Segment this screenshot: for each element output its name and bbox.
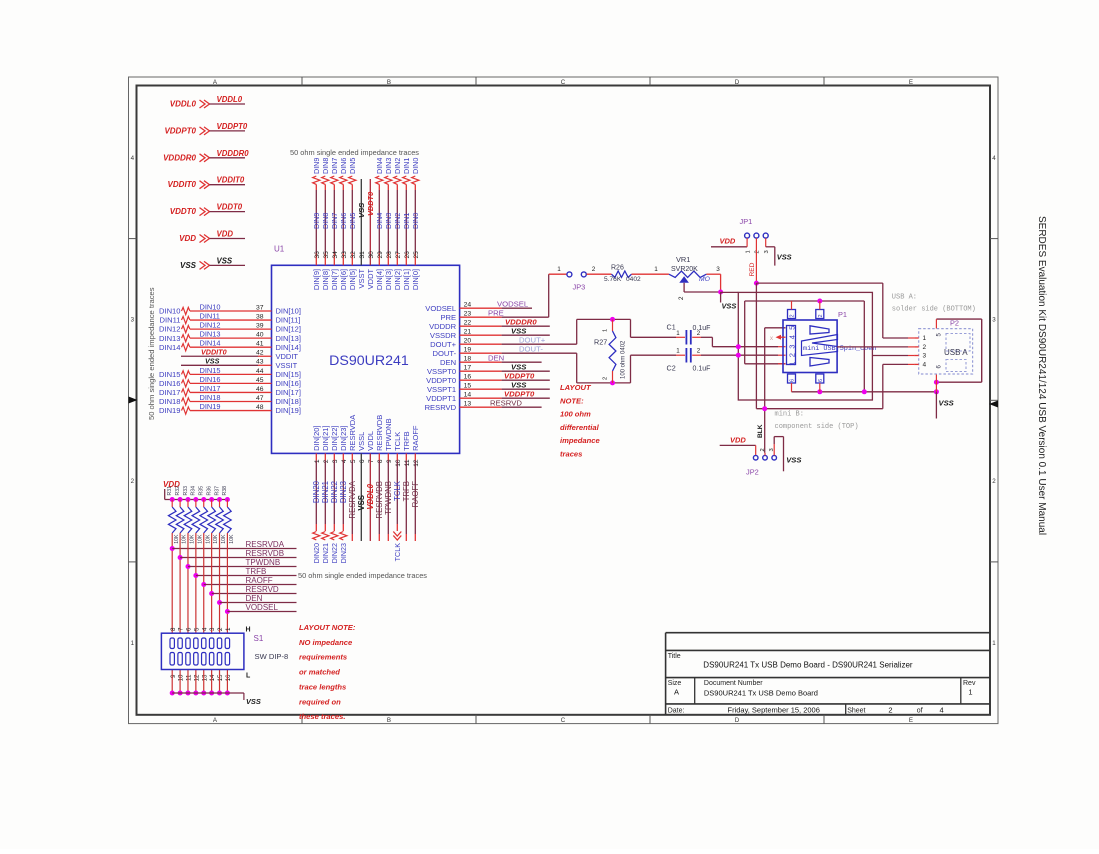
svg-text:RESRVD: RESRVD: [490, 398, 522, 407]
svg-text:VSS: VSS: [939, 399, 954, 408]
svg-text:JP1: JP1: [740, 217, 753, 226]
svg-text:DIN[7]: DIN[7]: [330, 269, 339, 290]
svg-text:0402: 0402: [626, 276, 641, 283]
svg-text:E: E: [909, 79, 913, 86]
svg-text:2: 2: [818, 314, 824, 317]
svg-text:7: 7: [178, 627, 185, 631]
svg-text:TCLK: TCLK: [393, 543, 402, 562]
svg-text:VSS: VSS: [357, 203, 366, 218]
svg-text:DIN[16]: DIN[16]: [276, 379, 301, 388]
svg-text:36: 36: [314, 251, 321, 259]
svg-text:2: 2: [755, 250, 761, 253]
svg-text:DIN2: DIN2: [393, 213, 402, 229]
svg-text:5: 5: [193, 627, 200, 631]
svg-text:28: 28: [386, 251, 393, 259]
svg-text:VDD: VDD: [730, 435, 746, 444]
svg-text:VSS: VSS: [217, 256, 233, 265]
svg-text:R33: R33: [183, 486, 189, 496]
svg-text:DS90UR241 Tx USB Demo Board: DS90UR241 Tx USB Demo Board: [704, 689, 818, 698]
svg-text:impedance: impedance: [560, 436, 600, 445]
svg-text:50 ohm single ended impedance: 50 ohm single ended impedance traces: [290, 148, 419, 157]
svg-text:30: 30: [368, 251, 375, 259]
svg-text:VDDL: VDDL: [366, 431, 375, 451]
svg-text:DOUT+: DOUT+: [519, 335, 546, 344]
svg-text:DIN[6]: DIN[6]: [339, 269, 348, 290]
svg-text:4: 4: [787, 335, 796, 339]
svg-text:SVR20K: SVR20K: [671, 266, 698, 273]
svg-text:VSSIT: VSSIT: [276, 361, 298, 370]
svg-text:TPWDNB: TPWDNB: [384, 481, 393, 515]
svg-text:DIN7: DIN7: [330, 213, 339, 229]
svg-text:DIN15: DIN15: [200, 366, 221, 375]
svg-text:10K: 10K: [182, 534, 188, 544]
svg-text:TRFB: TRFB: [246, 567, 267, 576]
svg-text:16: 16: [225, 674, 232, 681]
svg-text:VR1: VR1: [676, 255, 690, 264]
svg-text:VSSL: VSSL: [357, 432, 366, 451]
svg-text:VDDDR0: VDDDR0: [163, 153, 196, 162]
svg-text:10: 10: [395, 459, 402, 467]
svg-text:DOUT-: DOUT-: [519, 344, 543, 353]
svg-text:VSSPT1: VSSPT1: [427, 385, 456, 394]
svg-text:DIN20: DIN20: [312, 543, 321, 563]
svg-text:43: 43: [256, 359, 264, 366]
svg-text:4: 4: [341, 459, 348, 463]
svg-text:VSS: VSS: [722, 302, 737, 311]
svg-text:2: 2: [217, 627, 224, 631]
svg-text:3: 3: [209, 627, 216, 631]
svg-text:1: 1: [557, 266, 561, 273]
svg-text:VDDT0: VDDT0: [170, 207, 197, 216]
svg-text:DIN[21]: DIN[21]: [321, 425, 330, 450]
svg-text:4: 4: [940, 705, 944, 714]
svg-text:VDD: VDD: [179, 234, 196, 243]
svg-text:15: 15: [217, 674, 224, 681]
svg-text:12: 12: [193, 674, 200, 681]
svg-text:5.76K: 5.76K: [604, 276, 622, 283]
svg-text:VDDT0: VDDT0: [366, 191, 375, 216]
svg-text:9: 9: [386, 459, 393, 463]
svg-text:VSS: VSS: [357, 495, 366, 511]
svg-text:requirements: requirements: [299, 653, 347, 662]
svg-text:50 ohm single ended impedance: 50 ohm single ended impedance traces: [298, 571, 427, 580]
svg-text:3: 3: [787, 345, 796, 349]
svg-text:DIN9: DIN9: [312, 158, 321, 174]
svg-text:10K: 10K: [229, 534, 235, 544]
svg-text:C: C: [561, 717, 566, 724]
svg-text:DIN17: DIN17: [200, 384, 221, 393]
svg-text:DIN[20]: DIN[20]: [312, 425, 321, 450]
svg-text:S1: S1: [254, 634, 264, 643]
svg-text:2: 2: [697, 348, 701, 355]
svg-text:of: of: [917, 707, 923, 714]
svg-text:DIN5: DIN5: [348, 213, 357, 229]
svg-text:DIN22: DIN22: [330, 543, 339, 563]
svg-text:6: 6: [790, 379, 796, 382]
svg-text:DIN9: DIN9: [312, 213, 321, 229]
svg-text:48: 48: [256, 404, 264, 411]
svg-text:TPWDNB: TPWDNB: [246, 558, 281, 567]
svg-text:4: 4: [923, 362, 927, 369]
svg-text:33: 33: [341, 251, 348, 259]
svg-text:4: 4: [201, 627, 208, 631]
svg-text:DEN: DEN: [488, 353, 504, 362]
svg-text:2: 2: [923, 344, 927, 351]
svg-text:45: 45: [256, 377, 264, 384]
svg-text:NOTE:: NOTE:: [560, 396, 584, 405]
svg-text:3: 3: [332, 459, 339, 463]
svg-text:2: 2: [888, 705, 892, 714]
svg-text:VODSEL: VODSEL: [246, 603, 279, 612]
svg-text:DIN12: DIN12: [200, 321, 221, 330]
svg-text:11: 11: [404, 459, 411, 466]
svg-text:SW DIP-8: SW DIP-8: [255, 652, 289, 661]
svg-text:27: 27: [395, 251, 402, 259]
svg-text:DIN1: DIN1: [402, 213, 411, 229]
svg-text:Size: Size: [668, 680, 682, 687]
svg-text:DIN10: DIN10: [159, 307, 181, 316]
svg-text:VSS: VSS: [246, 697, 261, 706]
svg-text:VDDDR: VDDDR: [429, 322, 457, 331]
svg-text:C: C: [561, 79, 566, 86]
svg-text:0.1uF: 0.1uF: [693, 366, 711, 373]
svg-text:B: B: [387, 79, 391, 86]
svg-text:C2: C2: [667, 364, 676, 373]
svg-text:D: D: [735, 79, 740, 86]
svg-text:RESRVDB: RESRVDB: [375, 415, 384, 451]
svg-text:TRFB: TRFB: [402, 431, 411, 451]
svg-text:USB A: USB A: [944, 348, 968, 357]
svg-text:SERDES Evaluation Kit DS90UR24: SERDES Evaluation Kit DS90UR241/124 USB …: [1036, 216, 1047, 535]
svg-text:DIN[4]: DIN[4]: [375, 269, 384, 290]
svg-text:9: 9: [170, 674, 177, 678]
svg-text:40: 40: [256, 332, 264, 339]
svg-text:2: 2: [678, 296, 685, 300]
svg-text:10: 10: [178, 674, 185, 681]
svg-text:DIN6: DIN6: [339, 158, 348, 174]
svg-text:10K: 10K: [213, 534, 219, 544]
svg-text:VDDL0: VDDL0: [170, 100, 197, 109]
svg-text:differential: differential: [560, 423, 600, 432]
svg-text:14: 14: [209, 674, 216, 681]
svg-text:DIN18: DIN18: [200, 393, 221, 402]
svg-text:PRE: PRE: [440, 313, 456, 322]
svg-text:11: 11: [186, 674, 193, 681]
svg-text:LAYOUT NOTE:: LAYOUT NOTE:: [299, 623, 356, 632]
svg-text:DIN8: DIN8: [321, 158, 330, 174]
svg-text:DIN10: DIN10: [200, 302, 221, 311]
svg-text:10K: 10K: [197, 534, 203, 544]
svg-text:R36: R36: [206, 486, 212, 496]
svg-text:37: 37: [256, 304, 264, 311]
svg-text:DIN18: DIN18: [159, 397, 181, 406]
svg-text:DIN[9]: DIN[9]: [312, 269, 321, 290]
svg-text:A: A: [674, 688, 679, 697]
svg-text:0.1uF: 0.1uF: [693, 325, 711, 332]
svg-text:DIN15: DIN15: [159, 370, 181, 379]
svg-text:RESRVD: RESRVD: [246, 585, 279, 594]
svg-text:RESRVDA: RESRVDA: [246, 540, 285, 549]
svg-text:VDDPT0: VDDPT0: [504, 371, 535, 380]
svg-text:P2: P2: [950, 319, 959, 328]
svg-text:VSS: VSS: [511, 326, 527, 335]
svg-text:10K: 10K: [205, 534, 211, 544]
svg-text:DIN[14]: DIN[14]: [276, 343, 301, 352]
svg-text:DIN[8]: DIN[8]: [321, 269, 330, 290]
svg-text:DIN3: DIN3: [384, 158, 393, 174]
svg-text:1: 1: [314, 459, 321, 463]
svg-text:1: 1: [787, 362, 796, 366]
svg-text:VDDPT0: VDDPT0: [164, 126, 196, 135]
svg-text:6: 6: [818, 379, 824, 382]
svg-text:VDDDR0: VDDDR0: [505, 317, 537, 326]
svg-text:U1: U1: [274, 245, 285, 254]
svg-text:DIN11: DIN11: [200, 311, 220, 320]
svg-text:JP2: JP2: [746, 468, 759, 477]
svg-text:trace lengths: trace lengths: [299, 682, 346, 691]
svg-text:2: 2: [592, 266, 596, 273]
svg-text:VDDT0: VDDT0: [217, 203, 243, 212]
svg-text:VDDIT0: VDDIT0: [217, 176, 245, 185]
svg-text:1: 1: [992, 640, 996, 647]
svg-text:50 ohm single ended impedance: 50 ohm single ended impedance traces: [147, 287, 156, 420]
svg-text:46: 46: [256, 386, 264, 393]
svg-text:VDDL0: VDDL0: [217, 95, 243, 104]
svg-text:C1: C1: [667, 323, 676, 332]
svg-text:DIN17: DIN17: [159, 388, 181, 397]
svg-text:1: 1: [923, 335, 927, 342]
svg-text:R32: R32: [175, 486, 181, 496]
svg-text:2: 2: [760, 448, 766, 451]
svg-text:VDD: VDD: [217, 230, 234, 239]
svg-text:4: 4: [131, 155, 135, 162]
svg-text:VDDL0: VDDL0: [366, 483, 375, 509]
svg-text:Friday, September 15, 2006: Friday, September 15, 2006: [727, 705, 819, 714]
svg-text:TCLK: TCLK: [393, 480, 402, 501]
svg-text:1: 1: [676, 348, 680, 355]
svg-text:or matched: or matched: [299, 668, 340, 677]
svg-text:32: 32: [350, 251, 357, 259]
svg-text:2: 2: [992, 478, 996, 485]
svg-text:2: 2: [790, 314, 796, 317]
svg-text:35: 35: [323, 251, 330, 259]
svg-text:DIN12: DIN12: [159, 325, 181, 334]
svg-text:10K: 10K: [221, 534, 227, 544]
svg-text:DIN[17]: DIN[17]: [276, 388, 301, 397]
svg-text:7: 7: [368, 459, 375, 463]
svg-text:DIN13: DIN13: [200, 330, 221, 339]
svg-text:5: 5: [350, 459, 357, 463]
svg-text:VSSDR: VSSDR: [430, 331, 457, 340]
svg-text:DIN14: DIN14: [159, 343, 181, 352]
svg-text:1: 1: [225, 627, 232, 631]
svg-text:NO impedance: NO impedance: [299, 638, 353, 647]
svg-text:TRFB: TRFB: [402, 481, 411, 501]
svg-text:DIN22: DIN22: [330, 481, 339, 503]
svg-text:VDDIT0: VDDIT0: [201, 348, 227, 357]
svg-text:DIN23: DIN23: [339, 543, 348, 563]
svg-text:RESRVDB: RESRVDB: [246, 549, 285, 558]
svg-text:3: 3: [992, 317, 996, 324]
svg-text:2: 2: [787, 353, 796, 357]
svg-text:DIN14: DIN14: [200, 339, 221, 348]
svg-text:6: 6: [359, 459, 366, 463]
svg-text:DIN0: DIN0: [411, 213, 420, 229]
svg-text:RAOFF: RAOFF: [411, 481, 420, 508]
svg-text:VSS: VSS: [511, 380, 527, 389]
svg-text:39: 39: [256, 323, 264, 330]
svg-text:3: 3: [764, 250, 770, 253]
svg-text:DIN[18]: DIN[18]: [276, 397, 301, 406]
svg-text:1: 1: [654, 266, 658, 273]
svg-text:R37: R37: [214, 486, 220, 496]
svg-text:25: 25: [413, 251, 420, 259]
svg-text:mini USB 5pin_coen: mini USB 5pin_coen: [803, 345, 876, 353]
svg-text:DIN4: DIN4: [375, 213, 384, 229]
svg-text:29: 29: [377, 251, 384, 259]
svg-text:47: 47: [256, 395, 264, 402]
svg-text:DIN0: DIN0: [411, 158, 420, 174]
svg-text:VSSPT0: VSSPT0: [427, 367, 456, 376]
svg-text:DIN[11]: DIN[11]: [276, 316, 301, 325]
svg-text:DEN: DEN: [246, 594, 263, 603]
svg-text:DIN2: DIN2: [393, 158, 402, 174]
svg-text:DIN16: DIN16: [200, 375, 221, 384]
svg-text:DIN23: DIN23: [339, 481, 348, 503]
svg-text:DEN: DEN: [440, 358, 456, 367]
svg-text:DIN13: DIN13: [159, 334, 181, 343]
svg-text:DIN7: DIN7: [330, 158, 339, 174]
svg-text:DIN6: DIN6: [339, 213, 348, 229]
svg-text:VSS: VSS: [511, 362, 527, 371]
svg-text:DIN[0]: DIN[0]: [411, 269, 420, 290]
svg-text:VSS: VSS: [777, 253, 792, 262]
svg-text:E: E: [909, 717, 913, 724]
svg-text:RED: RED: [749, 262, 756, 276]
svg-text:2: 2: [697, 330, 701, 337]
svg-text:41: 41: [256, 341, 264, 348]
svg-text:3: 3: [923, 353, 927, 360]
svg-text:component side (TOP): component side (TOP): [775, 423, 859, 431]
svg-text:2: 2: [603, 377, 609, 380]
svg-text:TPWDNB: TPWDNB: [384, 418, 393, 451]
svg-text:VDDPT1: VDDPT1: [426, 394, 456, 403]
svg-text:Date:: Date:: [668, 707, 685, 714]
svg-text:these traces.: these traces.: [299, 712, 345, 721]
svg-text:Document Number: Document Number: [704, 680, 763, 687]
svg-text:1: 1: [603, 329, 609, 332]
svg-text:TCLK: TCLK: [393, 432, 402, 451]
svg-text:VDDT: VDDT: [366, 268, 375, 289]
svg-text:DIN16: DIN16: [159, 379, 181, 388]
svg-text:2: 2: [323, 459, 330, 463]
svg-text:8: 8: [377, 459, 384, 463]
svg-text:R31: R31: [167, 486, 173, 496]
svg-text:VSST: VSST: [357, 268, 366, 288]
svg-text:B: B: [387, 717, 391, 724]
svg-text:solder side (BOTTOM): solder side (BOTTOM): [892, 306, 976, 314]
svg-text:RESRVDA: RESRVDA: [348, 480, 357, 518]
svg-text:1: 1: [676, 330, 680, 337]
svg-text:required on: required on: [299, 697, 341, 706]
svg-text:DIN4: DIN4: [375, 158, 384, 174]
svg-text:3: 3: [131, 317, 135, 324]
svg-text:VODSEL: VODSEL: [425, 304, 456, 313]
svg-text:VDDDR0: VDDDR0: [217, 149, 250, 158]
svg-text:DIN19: DIN19: [200, 402, 221, 411]
svg-text:VDD: VDD: [720, 236, 736, 245]
svg-text:JP3: JP3: [573, 283, 586, 292]
svg-text:4: 4: [992, 155, 996, 162]
svg-text:P1: P1: [838, 310, 847, 319]
svg-text:DIN19: DIN19: [159, 406, 181, 415]
svg-text:RAOFF: RAOFF: [246, 576, 273, 585]
svg-text:10K: 10K: [174, 534, 180, 544]
svg-text:DOUT+: DOUT+: [430, 340, 457, 349]
svg-text:13: 13: [201, 674, 208, 681]
svg-text:LAYOUT: LAYOUT: [560, 383, 592, 392]
svg-text:VODSEL: VODSEL: [497, 299, 529, 308]
svg-text:12: 12: [413, 459, 420, 467]
svg-text:DIN21: DIN21: [321, 481, 330, 503]
svg-text:DIN8: DIN8: [321, 213, 330, 229]
svg-text:1: 1: [745, 250, 751, 253]
svg-text:R38: R38: [222, 486, 228, 496]
svg-text:34: 34: [332, 251, 339, 259]
svg-text:VDDPT0: VDDPT0: [426, 376, 456, 385]
svg-text:6: 6: [186, 627, 193, 631]
svg-text:R34: R34: [191, 486, 197, 496]
svg-text:RESRVDA: RESRVDA: [348, 415, 357, 451]
svg-text:5: 5: [787, 326, 796, 330]
svg-text:26: 26: [404, 251, 411, 259]
svg-text:DIN[12]: DIN[12]: [276, 325, 301, 334]
svg-text:100 ohm 0402: 100 ohm 0402: [621, 340, 627, 379]
svg-text:DIN11: DIN11: [160, 316, 181, 325]
svg-text:DIN1: DIN1: [402, 158, 411, 174]
svg-text:31: 31: [359, 251, 366, 259]
svg-text:RESRVD: RESRVD: [425, 403, 457, 412]
svg-text:VSS: VSS: [180, 261, 197, 270]
svg-text:D: D: [735, 717, 740, 724]
svg-text:DIN20: DIN20: [312, 480, 321, 503]
svg-text:8: 8: [170, 627, 177, 631]
svg-text:USB A:: USB A:: [892, 294, 917, 302]
svg-text:3: 3: [716, 266, 720, 273]
svg-text:DIN[2]: DIN[2]: [393, 269, 402, 290]
svg-text:DIN5: DIN5: [348, 158, 357, 174]
svg-text:DIN[22]: DIN[22]: [330, 425, 339, 450]
svg-text:VDDIT: VDDIT: [276, 352, 299, 361]
svg-text:Sheet: Sheet: [847, 707, 865, 714]
svg-text:100 ohm: 100 ohm: [560, 410, 591, 419]
svg-text:RESRVDB: RESRVDB: [375, 481, 384, 519]
svg-text:DIN[13]: DIN[13]: [276, 334, 301, 343]
svg-text:VDDIT0: VDDIT0: [168, 180, 197, 189]
svg-text:DIN[23]: DIN[23]: [339, 425, 348, 450]
svg-text:BLK: BLK: [757, 424, 764, 438]
svg-text:DOUT-: DOUT-: [432, 349, 456, 358]
svg-text:DIN3: DIN3: [384, 213, 393, 229]
svg-text:DIN[10]: DIN[10]: [276, 307, 301, 316]
svg-text:Rev: Rev: [963, 680, 976, 687]
svg-text:VDDPT0: VDDPT0: [504, 389, 535, 398]
svg-text:1: 1: [968, 688, 972, 697]
svg-text:R35: R35: [199, 486, 205, 496]
svg-text:Title: Title: [668, 653, 681, 660]
svg-text:mini B:: mini B:: [775, 411, 804, 419]
svg-text:L: L: [246, 673, 251, 680]
